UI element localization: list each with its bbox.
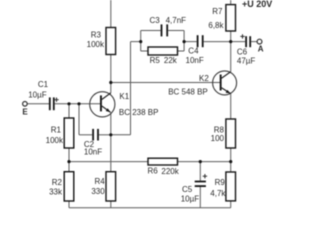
svg-text:4,7k: 4,7k: [210, 189, 226, 198]
svg-text:E: E: [22, 107, 28, 116]
svg-text:C5: C5: [182, 185, 193, 194]
svg-text:47µF: 47µF: [237, 57, 256, 66]
svg-text:330: 330: [91, 187, 105, 196]
svg-text:10nF: 10nF: [84, 148, 102, 157]
svg-text:10µF: 10µF: [28, 90, 47, 99]
svg-text:R4: R4: [94, 177, 105, 186]
svg-text:R3: R3: [91, 30, 102, 39]
svg-text:R8: R8: [214, 125, 225, 134]
svg-text:K1: K1: [119, 92, 129, 101]
svg-text:R7: R7: [212, 7, 223, 16]
svg-text:BC 238 BP: BC 238 BP: [119, 108, 159, 117]
svg-text:C1: C1: [38, 80, 49, 89]
svg-text:+U 20V: +U 20V: [242, 0, 272, 9]
svg-text:6,8k: 6,8k: [208, 21, 224, 30]
svg-text:100k: 100k: [46, 136, 64, 145]
svg-text:R9: R9: [215, 178, 226, 187]
svg-text:22k: 22k: [164, 56, 178, 65]
svg-text:R6: R6: [148, 167, 159, 176]
svg-text:10nF: 10nF: [186, 56, 204, 65]
svg-text:A: A: [258, 45, 264, 54]
svg-text:4,7nF: 4,7nF: [166, 16, 187, 25]
svg-text:R5: R5: [150, 56, 161, 65]
svg-text:R2: R2: [52, 178, 63, 187]
svg-text:100: 100: [211, 134, 225, 143]
svg-text:33k: 33k: [49, 188, 63, 197]
svg-text:C3: C3: [150, 16, 161, 25]
svg-text:100k: 100k: [87, 40, 105, 49]
svg-text:BC 548 BP: BC 548 BP: [168, 87, 208, 96]
svg-text:K2: K2: [199, 74, 209, 83]
svg-text:R1: R1: [51, 125, 62, 134]
svg-text:C4: C4: [188, 47, 199, 56]
svg-text:220k: 220k: [161, 167, 179, 176]
svg-text:C6: C6: [237, 48, 248, 57]
svg-text:10µF: 10µF: [181, 194, 200, 203]
